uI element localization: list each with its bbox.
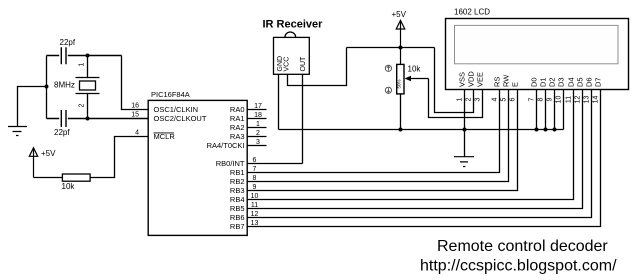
pin RB7 wire 13 to LCD D7 [247, 90, 600, 228]
pin RB3 wire 9 to LCD E [247, 90, 517, 192]
svg-text:MCLR: MCLR [154, 132, 176, 141]
svg-text:D6: D6 [585, 77, 594, 87]
svg-text:4: 4 [135, 130, 139, 137]
svg-text:6: 6 [510, 97, 517, 101]
svg-text:RA0: RA0 [230, 105, 245, 114]
svg-text:RB3: RB3 [230, 186, 245, 195]
wire LCD D3 to rail end [563, 90, 565, 130]
svg-text:1602 LCD: 1602 LCD [454, 8, 490, 17]
svg-text:RS: RS [493, 77, 502, 87]
pin RB6 wire 12 to LCD D6 [247, 90, 591, 219]
svg-text:RB4: RB4 [230, 195, 245, 204]
svg-text:D2: D2 [548, 77, 557, 87]
svg-text:D1: D1 [539, 77, 548, 87]
svg-text:Remote control decoder: Remote control decoder [437, 238, 608, 255]
svg-text:RA2: RA2 [230, 123, 245, 132]
svg-text:PIC16F84A: PIC16F84A [151, 90, 190, 99]
svg-text:9: 9 [547, 97, 554, 101]
svg-text:RB6: RB6 [230, 213, 245, 222]
pin RA2 stub 1 [247, 121, 266, 128]
power +5V MCLR [29, 148, 56, 178]
node left wire junction [45, 85, 49, 89]
node VSS-rail junction [463, 128, 467, 132]
svg-text:13: 13 [251, 220, 259, 227]
svg-text:22pf: 22pf [60, 38, 76, 47]
svg-text:D4: D4 [567, 77, 576, 87]
svg-text:1: 1 [256, 121, 260, 128]
svg-text:RW: RW [502, 74, 511, 87]
svg-text:2: 2 [78, 103, 85, 107]
svg-text:11: 11 [251, 202, 258, 209]
node crystal bottom junction [86, 117, 90, 121]
svg-text:7: 7 [529, 97, 536, 101]
svg-text:4: 4 [492, 97, 499, 101]
svg-text:10: 10 [251, 193, 259, 200]
wire pot wiper to LCD VEE [429, 79, 483, 118]
wire +5V to resistor [34, 177, 63, 179]
svg-text:15: 15 [131, 112, 139, 119]
wire OSC1 from top [122, 56, 149, 110]
svg-text:10k: 10k [408, 65, 422, 74]
svg-text:12: 12 [575, 96, 582, 104]
wire LCD VSS down to ground [464, 90, 466, 158]
svg-text:OSC1/CLKIN: OSC1/CLKIN [154, 105, 199, 114]
svg-text:RA3: RA3 [230, 132, 245, 141]
svg-text:VDD: VDD [467, 71, 476, 87]
ground center [454, 157, 474, 167]
svg-text:E: E [511, 82, 520, 87]
svg-text:RB1: RB1 [230, 168, 245, 177]
crystal X1 8MHz [54, 56, 100, 119]
wire LCD D2 to rail [554, 90, 556, 130]
svg-text:22pf: 22pf [54, 128, 70, 137]
node pot-rail junction [399, 128, 403, 132]
power +5V top [392, 10, 407, 64]
wire crystal left vertical [46, 56, 48, 119]
svg-text:18: 18 [254, 112, 262, 119]
svg-text:10k: 10k [62, 182, 76, 191]
IR receiver U2 [263, 19, 324, 75]
ground rail [279, 129, 564, 131]
svg-text:OUT: OUT [300, 56, 307, 72]
pin RA4/T0CKI stub 3 [247, 139, 266, 146]
wire +5V horizontal [347, 47, 435, 49]
svg-text:D3: D3 [557, 77, 566, 87]
svg-text:VSS: VSS [458, 72, 467, 87]
svg-text:RB7: RB7 [230, 222, 245, 231]
svg-text:3: 3 [256, 139, 260, 146]
IC U1 PIC16F84A body [148, 90, 247, 235]
svg-text:VCC: VCC [284, 57, 291, 72]
svg-text:D5: D5 [576, 77, 585, 87]
svg-text:14: 14 [593, 96, 600, 104]
pin RB1 wire 7 to LCD RS [247, 90, 499, 174]
pin RB5 wire 11 to LCD D5 [247, 90, 582, 210]
svg-text:OSC2/CLKOUT: OSC2/CLKOUT [154, 114, 207, 123]
svg-text:IR Receiver: IR Receiver [263, 19, 324, 31]
svg-text:7: 7 [253, 166, 257, 173]
wire resistor to MCLR [90, 137, 148, 178]
svg-text:RA1: RA1 [230, 114, 245, 123]
svg-text:1: 1 [457, 97, 464, 101]
wire VDD route [435, 48, 474, 113]
pin RA3 stub 2 [247, 130, 266, 137]
svg-text:50%: 50% [397, 79, 402, 88]
svg-text:2: 2 [256, 130, 260, 137]
wire IR GND down to rail [278, 74, 280, 129]
pin RA0 stub 17 [247, 103, 266, 110]
svg-text:13: 13 [584, 96, 591, 104]
resistor R1 10k [62, 174, 91, 191]
wire LCD D0 to rail [536, 90, 538, 130]
node D2 junction [553, 128, 557, 132]
svg-text:12: 12 [251, 211, 259, 218]
capacitor C1 22pf [47, 38, 122, 64]
pin RB4 wire 10 to LCD D4 [247, 90, 573, 201]
LCD display 1602 [446, 8, 629, 104]
svg-text:9: 9 [253, 184, 257, 191]
node crystal top junction [86, 54, 90, 58]
svg-text:+5V: +5V [41, 149, 56, 158]
wire IR VCC to +5V [288, 48, 347, 86]
wire pot bottom to rail [400, 94, 402, 130]
svg-text:D0: D0 [530, 77, 539, 87]
svg-text:6: 6 [253, 157, 257, 164]
svg-text:RB0/INT: RB0/INT [216, 159, 245, 168]
svg-text:8: 8 [538, 97, 545, 101]
capacitor C2 22pf [47, 110, 149, 137]
svg-text:2: 2 [466, 97, 473, 101]
svg-text:3: 3 [475, 97, 482, 101]
svg-text:17: 17 [254, 103, 262, 110]
pin RB0/INT stub 6 [247, 157, 302, 164]
pin RB2 wire 8 to LCD RW [247, 90, 508, 183]
wire LCD D1 to rail [545, 90, 547, 130]
wire IR OUT down to RB0 [302, 74, 304, 163]
svg-text:RA4/T0CKI: RA4/T0CKI [207, 141, 245, 150]
node D0 junction [535, 128, 539, 132]
svg-text:RB2: RB2 [230, 177, 245, 186]
svg-text:http://ccspicc.blogspot.com/: http://ccspicc.blogspot.com/ [420, 258, 617, 275]
pin RA1 stub 18 [247, 112, 266, 119]
svg-text:16: 16 [131, 103, 139, 110]
potentiometer RV1 10k [385, 64, 428, 94]
node +5V junction [399, 46, 403, 50]
node D1 junction [544, 128, 548, 132]
wire to ground left [18, 87, 47, 127]
svg-text:8MHz: 8MHz [54, 81, 75, 90]
svg-text:10: 10 [556, 96, 563, 104]
svg-text:8: 8 [253, 175, 257, 182]
svg-text:VEE: VEE [476, 72, 485, 87]
svg-text:1: 1 [78, 62, 85, 66]
svg-text:D7: D7 [594, 77, 603, 87]
svg-text:5: 5 [501, 97, 508, 101]
svg-text:RB5: RB5 [230, 204, 245, 213]
ground left [8, 127, 27, 136]
svg-text:+5V: +5V [392, 10, 407, 19]
svg-text:11: 11 [566, 96, 573, 103]
